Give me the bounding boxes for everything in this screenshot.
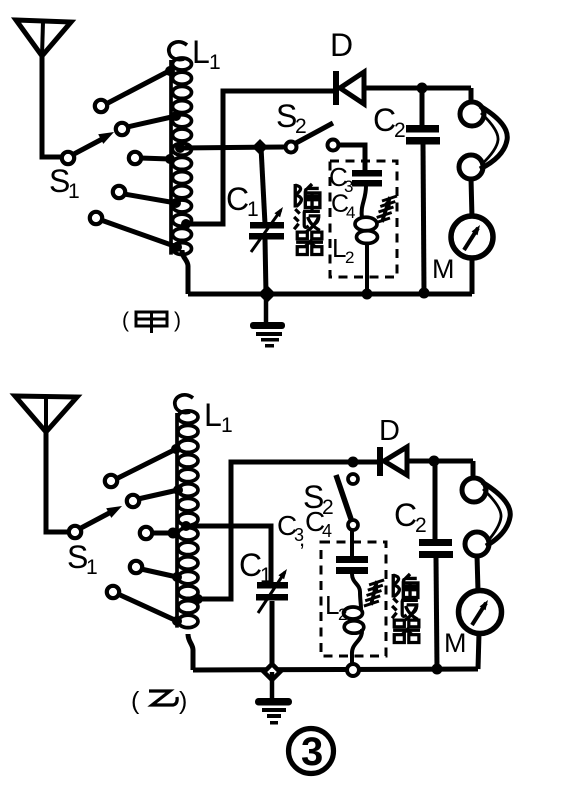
ground junction diamond	[258, 285, 276, 303]
coil L2 (top circuit)	[355, 217, 377, 231]
S1 contact 5	[90, 212, 102, 224]
svg-text:1: 1	[247, 198, 259, 221]
meter M (top circuit)	[451, 216, 493, 258]
wire rail corner to earphone (bottom)	[471, 461, 476, 478]
switch S1 hub (bottom circuit)	[69, 526, 81, 538]
svg-text:C: C	[394, 497, 417, 533]
wave trap chinese label 陷 (bottom)	[393, 574, 418, 598]
svg-text:C: C	[373, 102, 396, 138]
bottom rail (bottom circuit)	[193, 669, 478, 670]
capacitor C2 (top circuit)	[420, 88, 425, 125]
earphone (bottom circuit)	[462, 478, 486, 502]
wave trap chinese label 陷 (top)	[295, 184, 320, 208]
wire diode to C2 node	[364, 86, 471, 91]
svg-text:2: 2	[394, 119, 406, 142]
bottom rail (top circuit)	[188, 292, 472, 297]
svg-text:C: C	[239, 547, 262, 583]
wire C3C4 to L2 (bottom)	[352, 574, 361, 609]
S1 contact 2	[116, 123, 128, 135]
svg-text:1: 1	[221, 414, 233, 437]
svg-text:1: 1	[68, 180, 80, 203]
coil L1 (top circuit)	[169, 42, 187, 60]
wire contact2 to L1 tap2	[127, 116, 176, 127]
capacitor C3/C4 plates (top circuit)	[352, 170, 382, 177]
junction node (S2/C1)	[252, 139, 268, 155]
wire contact1 to L1 tap1 (bottom)	[116, 449, 176, 479]
wire earphone to meter	[471, 178, 472, 218]
svg-text:): )	[174, 309, 181, 332]
svg-text:4: 4	[346, 203, 355, 222]
capacitor C1 (variable, bottom circuit)	[257, 582, 288, 589]
wave trap dashed box (bottom circuit)	[321, 542, 386, 656]
ground junction diamond (bottom)	[264, 664, 280, 680]
wire contact4 to L1 tap4	[124, 194, 176, 203]
S1 contact 2 (bottom)	[127, 495, 139, 507]
coil L1 (bottom circuit)	[175, 395, 193, 413]
wire meter to bottom rail (bottom)	[478, 633, 479, 669]
L1 tap dots (bottom)	[171, 444, 181, 454]
wire C3 to L2	[362, 186, 366, 218]
wire contact5 to L1 tap5 (bottom)	[118, 594, 177, 621]
wire contact3 to L1	[140, 158, 170, 159]
svg-text:D: D	[330, 27, 353, 63]
adjustable core arrow (bottom circuit)	[371, 581, 377, 605]
capacitor C3/C4 plates (bottom circuit)	[336, 556, 368, 563]
figure number 3 circled	[289, 729, 334, 774]
diode D (bottom circuit)	[377, 447, 383, 476]
svg-text:4: 4	[322, 521, 332, 541]
svg-text:2: 2	[338, 605, 347, 624]
node dot diode/C2	[417, 83, 428, 94]
svg-text:D: D	[379, 415, 400, 447]
antenna (top circuit)	[16, 20, 71, 56]
S1 contact 4 (bottom)	[130, 561, 142, 573]
wire contact3 to L1 (bottom)	[151, 531, 176, 536]
S2 contact right	[328, 140, 339, 151]
wire diode to C2 node (bottom)	[407, 459, 473, 464]
wire L2 to bottom rail (bottom)	[352, 629, 362, 663]
antenna (bottom circuit)	[15, 396, 77, 432]
wire S2 to wave trap	[338, 145, 365, 170]
S1 contact 5 (bottom)	[107, 586, 119, 598]
wire L1 tap to top rail (left vertical)	[186, 91, 334, 224]
wire earphone to meter (bottom)	[477, 555, 478, 591]
S1 wiper arm with arrow	[74, 137, 106, 154]
svg-text:M: M	[432, 254, 455, 284]
C2 bottom junction dot	[419, 288, 430, 299]
wire L2 to bottom rail	[365, 243, 369, 294]
ground (top circuit)	[264, 294, 269, 324]
svg-text:1: 1	[86, 556, 98, 579]
svg-text:(: (	[122, 309, 129, 332]
wire rail corner to earphone	[469, 88, 474, 104]
switch S2 contact left	[286, 142, 297, 153]
svg-text:L: L	[204, 397, 222, 433]
wire antenna lead to S1	[42, 54, 62, 157]
wire contact4 to L1 tap4 (bottom)	[141, 569, 177, 577]
switch S1 hub (top circuit)	[62, 152, 74, 164]
wave trap chinese label 器 (bottom)	[393, 620, 420, 642]
svg-text:M: M	[444, 628, 467, 658]
svg-text:3: 3	[301, 730, 323, 774]
coil L2 (bottom circuit)	[344, 607, 363, 619]
wire L1 tap to C1 (bottom)	[186, 526, 271, 582]
node dot diode/C2 (bottom)	[429, 456, 440, 467]
S2 junction dot on rail (bottom)	[348, 457, 359, 468]
wave trap dashed box (top circuit)	[330, 161, 397, 277]
svg-text:1: 1	[260, 564, 272, 587]
capacitor C1 (variable, top circuit)	[261, 147, 265, 224]
S1 contact 4	[113, 186, 125, 198]
wave trap chinese label 波 (bottom)	[392, 597, 418, 621]
svg-text:(: (	[131, 687, 140, 715]
capacitor C2 (bottom circuit)	[433, 461, 438, 540]
wire L1 tap to junction node	[180, 147, 285, 148]
ground (bottom circuit)	[270, 672, 275, 700]
wire contact1 to L1 tap1	[106, 71, 169, 104]
meter M (bottom circuit)	[459, 591, 502, 634]
S1 contact 1 (bottom)	[105, 475, 117, 487]
svg-text:2: 2	[345, 248, 354, 267]
S2 contact bottom pivot	[348, 520, 358, 530]
trap bottom junction ring (bottom)	[347, 664, 359, 676]
wave trap chinese label 波 (top)	[294, 208, 320, 232]
S1 contact 3	[129, 152, 141, 164]
wire meter to bottom rail	[470, 258, 475, 294]
svg-text:2: 2	[415, 514, 427, 537]
wire contact5 to L1 tap5	[101, 220, 177, 247]
svg-text:): )	[179, 687, 187, 715]
S1 wiper arm with arrow (bottom)	[81, 511, 113, 528]
L1 tap dots	[165, 66, 175, 76]
trap bottom junction dot	[362, 289, 373, 300]
wire contact2 to L1 tap2 (bottom)	[138, 490, 178, 499]
wire coil bottom lead	[182, 250, 188, 294]
svg-text:2: 2	[295, 115, 307, 138]
svg-text:L: L	[192, 34, 210, 70]
wire antenna lead to S1 (bottom)	[46, 430, 69, 532]
svg-text:1: 1	[209, 51, 221, 74]
wave trap chinese label 器 (top)	[296, 232, 323, 254]
S2 arm (bottom)	[336, 475, 351, 519]
S2 arm	[296, 123, 333, 143]
diode D (top circuit)	[333, 71, 339, 105]
S2 contact top (bottom circuit)	[348, 474, 358, 484]
wire coil bottom lead (bottom)	[188, 634, 193, 670]
wire L1 tap to top rail (bottom left vertical)	[198, 462, 377, 599]
svg-text:C: C	[226, 181, 249, 217]
earphone (top circuit)	[460, 102, 484, 126]
S1 contact 3 (bottom)	[140, 527, 152, 539]
S1 contact 1	[95, 100, 107, 112]
C2 bottom junction dot (bottom)	[432, 664, 443, 675]
wire S2 to trap cap (bottom)	[350, 530, 354, 557]
adjustable core arrow (top circuit)	[382, 197, 390, 222]
